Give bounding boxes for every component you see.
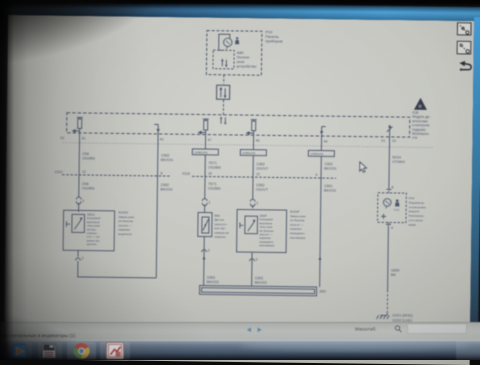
wire 1850 BK	[387, 225, 390, 289]
wire 7571 OG/BN below X315	[204, 177, 206, 199]
ground bus splice J500	[200, 285, 317, 295]
harness dotted line	[62, 143, 432, 148]
svg-text:тборы сигнальные и индикаторы: тборы сигнальные и индикаторы (1)	[0, 333, 76, 339]
P10 label	[265, 29, 282, 43]
svg-text:Масштаб:: Масштаб:	[355, 327, 376, 332]
wire 1362 OG/VT below X315	[252, 177, 254, 199]
K36 module label	[412, 111, 430, 140]
B153P label	[290, 210, 307, 240]
P14 airbag icon	[394, 199, 400, 212]
pin 1 connector col3	[202, 199, 207, 206]
pin 2 connector col1	[77, 250, 79, 256]
ground G201/G202	[377, 313, 390, 319]
S66P switch symbol	[245, 216, 258, 234]
S66Q switch symbol	[72, 214, 85, 232]
option box UH6/UH1 col5	[308, 150, 334, 156]
option box UH6/UH1 col4	[240, 150, 266, 156]
module output driver col3	[203, 119, 209, 121]
P14 label	[408, 196, 426, 227]
wire 1361 BK/OG below X315	[320, 178, 321, 287]
pin 2 connector col3	[203, 237, 206, 286]
wire 7571 OG/BN col3	[204, 135, 207, 177]
A80 label	[236, 50, 256, 69]
wire 1361 BK/OG col5	[320, 136, 323, 178]
wire 1362 BK/OG col2	[157, 134, 160, 176]
taskbar icon 3 (chrome)	[73, 343, 89, 359]
magnifier icon	[395, 326, 401, 332]
inline connector X (box with arrows)	[217, 85, 230, 99]
A80 up/down arrows	[222, 60, 226, 67]
dashed wire connector to module	[222, 100, 224, 115]
connector X2 + pin numbers	[60, 134, 396, 144]
module entry up/down arrows	[221, 117, 225, 124]
instrument panel P10 dashed box	[206, 31, 262, 76]
pan arrow icon	[459, 61, 471, 71]
taskbar icon 1 (blue app)	[13, 344, 27, 358]
splice up-arrow col5	[318, 257, 321, 260]
module output driver col1 (fuse + left arrow)	[77, 117, 83, 119]
belted occupant icon	[235, 37, 239, 44]
connector X315 dashed line	[192, 176, 336, 178]
taskbar reflection	[240, 339, 470, 351]
module output driver col4	[251, 120, 257, 122]
wire 1362 OG/VT col4	[252, 135, 255, 177]
switch S66Q box	[63, 210, 115, 251]
B60 label	[214, 214, 229, 239]
zoom tool icon 1	[457, 23, 471, 35]
pin 2 connector col4	[251, 252, 253, 286]
sensor B60 box	[198, 212, 212, 236]
X50 airbag module dashed box	[67, 113, 410, 137]
P14 passenger belt indicator dashed box	[377, 193, 406, 223]
option box UH6/UH1 col3	[192, 149, 218, 155]
mouse cursor	[360, 162, 367, 172]
taskbar top highlight	[0, 340, 480, 341]
P14 lamp	[383, 199, 391, 207]
dashed wire P10 to connector	[223, 75, 225, 84]
module pin X1-10 crossing (col6)	[387, 126, 393, 142]
switch S66P box	[237, 209, 287, 252]
P14 internal switch	[381, 214, 386, 219]
wire 5224 VT/WH col6	[388, 142, 391, 189]
S66Q label	[87, 213, 101, 247]
pin 1 connector col1	[76, 197, 81, 204]
taskbar icon 4 (viewer app)	[107, 343, 124, 360]
wire 238 OG/BN col1	[78, 133, 81, 175]
module output col2 (down arrow)	[154, 124, 158, 134]
S66P label	[259, 214, 275, 248]
pin 1 connector col4	[250, 199, 255, 206]
scale input box	[408, 324, 467, 334]
wire 238 OG/BN below X310	[78, 175, 80, 197]
taskbar icon 2 (document)	[43, 344, 56, 359]
B153D label	[118, 210, 135, 236]
taskbar button glows	[8, 342, 32, 359]
logic device A80 dashed box	[213, 50, 234, 69]
zoom tool icon 2	[457, 41, 471, 54]
warning triangle	[414, 98, 427, 110]
seat belt indicator lamp	[219, 34, 230, 50]
P14 pin 4	[386, 222, 391, 224]
P14 pin 6	[386, 189, 391, 193]
page nav arrows	[247, 328, 251, 333]
connector X310 dashed line	[62, 175, 170, 176]
wire 1362 BK/OG below X310	[156, 176, 157, 278]
return wire to 1362 BK/OG	[78, 261, 157, 278]
dashed wire to ground	[386, 290, 388, 314]
module output col5 (down arrow)	[322, 127, 326, 137]
